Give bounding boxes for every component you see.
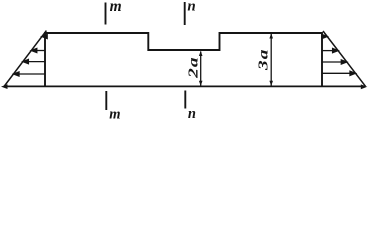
svg-text:m: m (110, 0, 122, 15)
svg-text:m: m (109, 106, 120, 120)
svg-text:n: n (187, 0, 195, 14)
svg-text:3a: 3a (255, 48, 271, 71)
svg-text:2a: 2a (185, 56, 201, 79)
svg-text:n: n (188, 106, 196, 120)
